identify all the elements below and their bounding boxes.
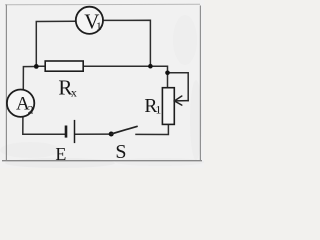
paper mottling bbox=[0, 15, 205, 168]
switch S contact dot bbox=[109, 132, 114, 137]
wire: node A to resistor Rx left lead bbox=[36, 65, 45, 67]
wire: node A left step down to ammeter bbox=[23, 67, 36, 90]
ammeter A2 circle bbox=[7, 90, 34, 117]
svg-text:S: S bbox=[115, 141, 126, 163]
wire: voltmeter right to top-right corner and down to node B bbox=[103, 20, 150, 66]
wire: switch right terminal to rheostat bottom corner bbox=[136, 124, 168, 134]
wire: node A up to top-left corner bbox=[36, 21, 76, 66]
resistor Rx body bbox=[45, 61, 83, 71]
node C junction dot bbox=[165, 71, 170, 76]
scan border frame bottom bbox=[2, 160, 202, 162]
scan border frame right bbox=[199, 6, 201, 161]
node B junction dot bbox=[148, 64, 153, 69]
wire: ammeter bottom down to bottom-left corner then right to battery bbox=[23, 117, 65, 134]
svg-text:x: x bbox=[71, 85, 77, 99]
paper background bbox=[0, 0, 204, 168]
svg-text:E: E bbox=[55, 144, 66, 164]
svg-text:2: 2 bbox=[28, 102, 34, 116]
node A junction dot bbox=[34, 64, 39, 69]
battery E long positive plate bbox=[74, 120, 76, 143]
rheostat R1 slider arrow bbox=[174, 96, 188, 105]
wire: node C right and down to slider arrow bbox=[168, 73, 189, 101]
wire: battery positive plate to switch contact bbox=[76, 133, 112, 135]
rheostat R1 body bbox=[162, 88, 174, 125]
svg-text:1: 1 bbox=[155, 102, 161, 116]
wire: resistor Rx right lead to node B bbox=[83, 65, 150, 67]
switch S lever bbox=[111, 126, 137, 134]
wire: node B to node C step bbox=[150, 66, 167, 73]
voltmeter U V1 circle bbox=[76, 7, 103, 34]
wire: node C down to rheostat top bbox=[167, 73, 169, 88]
scan border frame left bbox=[5, 5, 7, 161]
scan border frame top bbox=[5, 3, 200, 5]
battery E short negative plate bbox=[65, 126, 68, 138]
svg-text:1: 1 bbox=[96, 19, 102, 33]
